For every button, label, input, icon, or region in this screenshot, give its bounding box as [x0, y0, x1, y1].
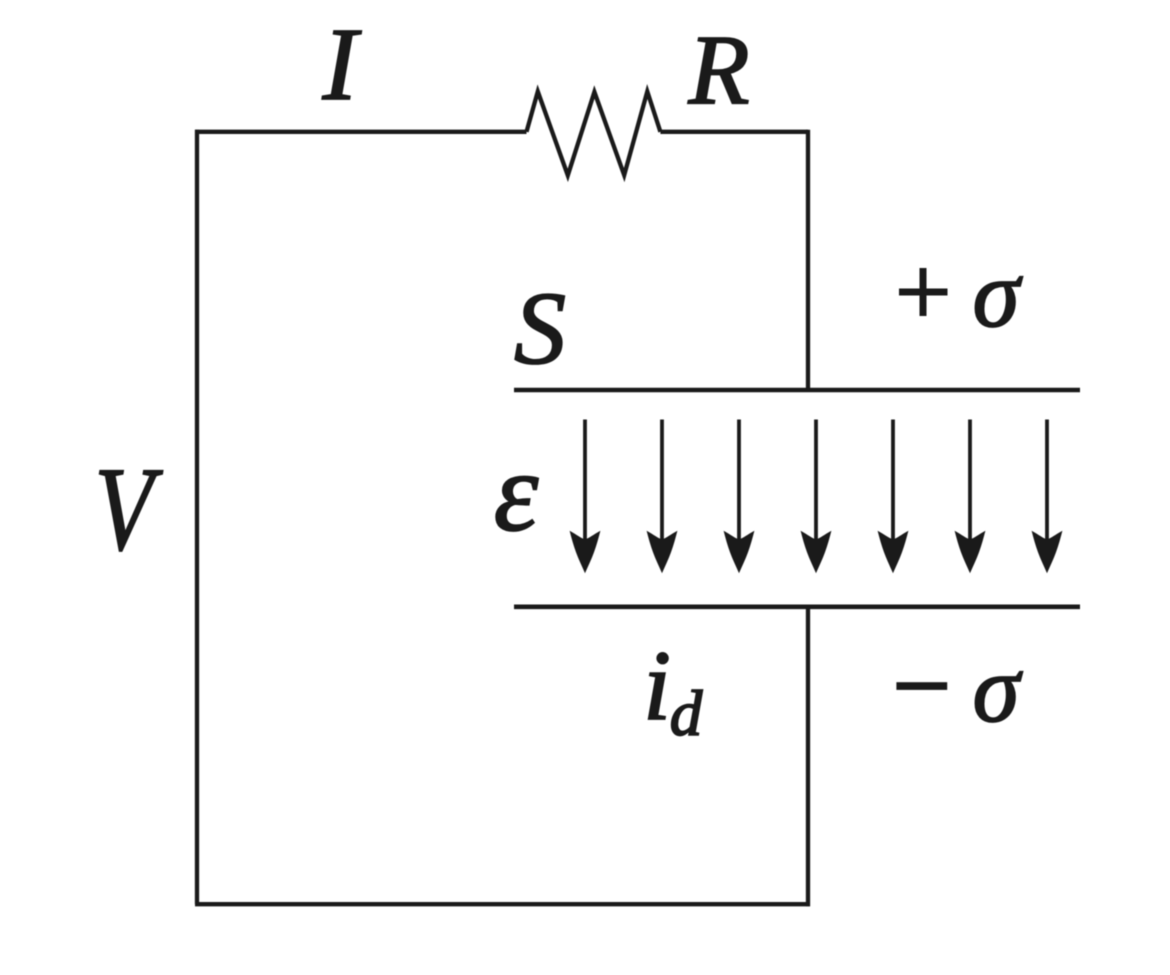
field arrow 2 — [647, 420, 678, 574]
wire capacitor top lead — [806, 130, 810, 390]
wire top-left segment — [195, 130, 527, 134]
wire bottom horizontal — [195, 902, 810, 906]
svg-text:I: I — [322, 7, 362, 122]
wire bottom-right vertical — [806, 606, 810, 906]
wire left vertical — [195, 130, 199, 904]
svg-text:V: V — [95, 442, 163, 575]
svg-text:ε: ε — [494, 430, 539, 555]
wire top-right segment — [660, 130, 808, 134]
minus sign of -sigma — [896, 682, 947, 690]
capacitor top plate — [514, 388, 1080, 392]
field arrow 4 — [801, 420, 832, 574]
field arrow 7 — [1032, 420, 1063, 574]
resistor R — [527, 92, 661, 176]
field arrow 6 — [955, 420, 986, 574]
capacitor bottom plate — [514, 604, 1080, 609]
svg-text:σ: σ — [973, 241, 1023, 347]
svg-text:σ: σ — [973, 636, 1023, 742]
svg-text:R: R — [687, 14, 749, 125]
svg-text:S: S — [514, 271, 566, 386]
field arrow 1 — [570, 420, 601, 574]
svg-text:i: i — [643, 630, 671, 741]
field arrow 5 — [878, 420, 909, 574]
svg-text:d: d — [670, 678, 703, 750]
plus sign of +sigma — [899, 268, 948, 316]
field arrow 3 — [724, 420, 755, 574]
